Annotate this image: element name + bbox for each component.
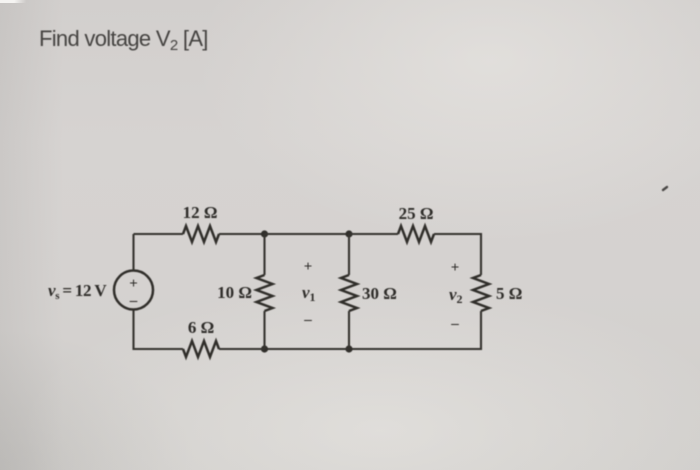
stray pen speck on photo xyxy=(663,187,667,190)
resistor R2 25Ω zigzag (top right) xyxy=(398,226,434,242)
svg-text:+: + xyxy=(129,276,138,292)
wire bottom rail: node C to 6Ω resistor xyxy=(219,348,265,350)
wire branch 1: 10Ω down to node C xyxy=(263,311,265,349)
wire branch 2: 30Ω down to node D xyxy=(348,311,350,349)
wire right rail: 5Ω to bottom-right corner, to node D xyxy=(349,311,481,349)
wire top rail: source corner to 12-ohm resistor xyxy=(134,233,184,235)
wire left rail: source top to top-left corner xyxy=(132,234,134,271)
svg-text:–: – xyxy=(129,293,138,309)
wire top rail: 25Ω to top-right corner, down right rail to 5Ω xyxy=(434,234,481,275)
svg-text:6 Ω: 6 Ω xyxy=(188,318,214,337)
node C junction dot (bottom of 10Ω branch) xyxy=(261,345,268,352)
node B junction dot (top of 30Ω branch) xyxy=(345,230,352,237)
white sliver top-left photo edge xyxy=(0,0,26,3)
svg-text:+: + xyxy=(451,260,460,276)
svg-text:–: – xyxy=(303,312,312,328)
title text xyxy=(39,26,208,52)
node A junction dot (top of 10Ω branch) xyxy=(261,230,268,237)
resistor R6 6Ω zigzag (bottom) xyxy=(183,341,219,357)
svg-text:–: – xyxy=(450,316,459,332)
svg-text:vs = 12 V: vs = 12 V xyxy=(48,281,107,302)
svg-text:+: + xyxy=(304,259,313,275)
wire bottom rail: 6Ω to bottom-left corner, up to source bottom xyxy=(134,310,184,350)
wire top rail: 12Ω to node A xyxy=(219,233,265,235)
wire branch 2: node B down to 30Ω xyxy=(348,234,350,275)
voltage source VS circle xyxy=(114,271,153,310)
svg-text:30 Ω: 30 Ω xyxy=(362,284,397,303)
resistor R4 30Ω zigzag (vertical branch 2) xyxy=(341,275,357,311)
wire top rail: node A to node B xyxy=(265,233,350,235)
wire branch 1: node A down to 10Ω xyxy=(263,234,265,275)
wire bottom rail: node D to node C xyxy=(265,348,350,350)
svg-text:10 Ω: 10 Ω xyxy=(217,283,252,302)
resistor R3 10Ω zigzag (vertical branch 1) xyxy=(257,275,273,311)
svg-text:5 Ω: 5 Ω xyxy=(496,284,522,303)
svg-text:v2: v2 xyxy=(449,285,463,306)
node D junction dot (bottom of 30Ω branch) xyxy=(345,345,352,352)
svg-text:v1: v1 xyxy=(302,283,316,304)
resistor R1 12Ω zigzag (top left) xyxy=(183,226,219,242)
resistor R5 5Ω zigzag (right rail, vertical) xyxy=(473,275,489,311)
svg-text:12 Ω: 12 Ω xyxy=(183,203,218,222)
wire top rail: node B to 25Ω resistor xyxy=(349,233,398,235)
svg-text:25 Ω: 25 Ω xyxy=(399,204,434,223)
